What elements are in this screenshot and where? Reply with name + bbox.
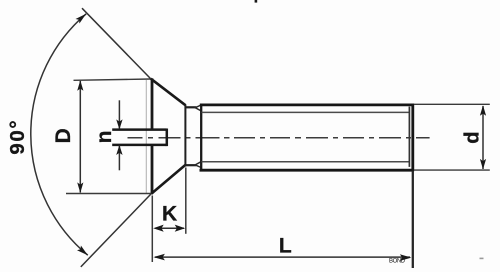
arc arrowhead bottom <box>77 246 88 256</box>
svg-text:K: K <box>162 202 177 225</box>
shaft major bottom line <box>200 169 414 172</box>
thread root bottom line <box>202 161 410 163</box>
D arrowhead bottom <box>77 182 83 193</box>
L arrowhead right <box>400 254 412 261</box>
K right extension line <box>185 168 187 234</box>
end chamfer line <box>408 107 410 167</box>
L right extension (shaft end extended) <box>412 171 414 268</box>
D extension line top <box>74 79 151 80</box>
svg-text:d: d <box>462 132 484 144</box>
svg-text:90°: 90° <box>6 119 29 155</box>
cone/shank junction line <box>184 105 186 167</box>
d extension line bottom <box>414 169 490 171</box>
n dimension line upper <box>118 100 120 129</box>
neck top line <box>185 106 196 108</box>
slot bottom edge <box>112 144 166 147</box>
slot top edge <box>112 128 166 131</box>
svg-text:L: L <box>279 235 292 258</box>
neck bottom line <box>185 164 196 166</box>
arc arrowhead top <box>76 14 87 24</box>
scan speck right bottom <box>480 258 484 260</box>
D dimension line <box>79 81 81 193</box>
head flat face (lower segment) <box>151 146 154 194</box>
n arrowhead down <box>116 119 122 129</box>
centerline (screw axis) <box>128 137 430 139</box>
d arrowhead down <box>480 159 486 170</box>
svg-text:D: D <box>52 128 75 143</box>
thread chamfer top <box>195 105 201 111</box>
90deg cone extension line top <box>82 8 151 79</box>
90deg angle arc <box>31 14 88 255</box>
cone top edge <box>151 79 186 106</box>
svg-text:n: n <box>93 131 116 144</box>
svg-text:BOND: BOND <box>389 259 406 265</box>
D arrowhead top <box>77 80 83 91</box>
L arrowhead left <box>153 254 165 261</box>
thread root top line <box>202 111 410 113</box>
shaft major top line <box>200 104 413 107</box>
K arrowhead right <box>175 225 186 232</box>
d dimension line <box>482 106 484 169</box>
D extension line bottom <box>66 193 151 195</box>
d arrowhead up <box>480 105 486 116</box>
head face scan ghost line <box>145 80 147 193</box>
L dimension line <box>155 256 410 258</box>
cone bottom edge <box>151 165 185 194</box>
slot bottom (right) edge <box>166 129 169 147</box>
thread chamfer bottom <box>195 162 201 168</box>
n dimension line lower <box>118 145 120 170</box>
d extension line top <box>414 103 490 105</box>
90deg cone extension line bottom <box>81 194 152 267</box>
K left extension line <box>151 196 153 263</box>
K arrowhead left <box>153 225 164 232</box>
K dimension line <box>155 227 184 229</box>
shaft end face <box>411 104 414 172</box>
head flat face (upper segment) <box>151 78 154 128</box>
n arrowhead up <box>116 145 122 155</box>
thread start vertical <box>200 104 202 171</box>
scan speck top edge <box>255 0 258 3</box>
